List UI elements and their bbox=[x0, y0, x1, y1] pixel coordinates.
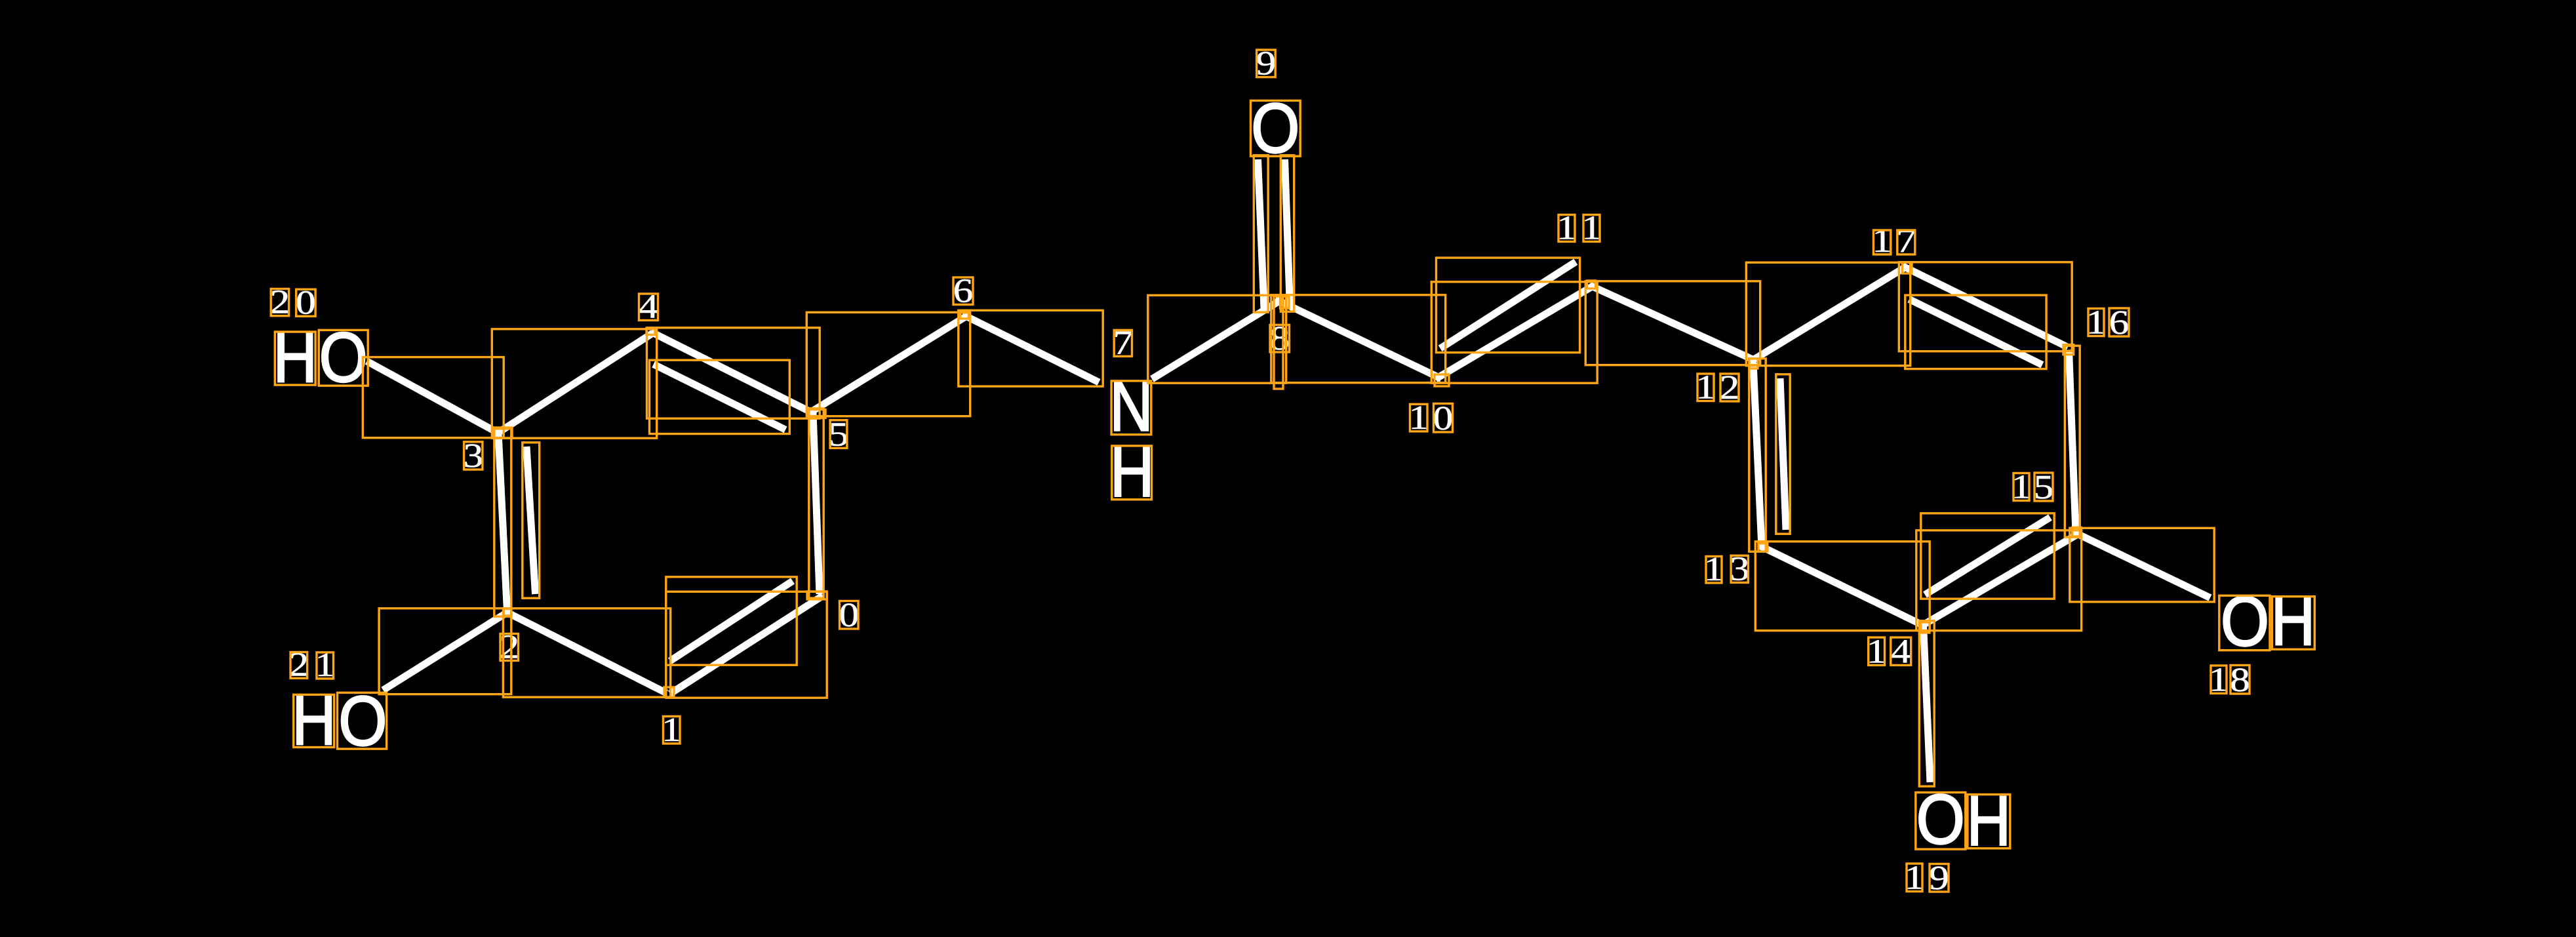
bond 6-N7 bbox=[962, 315, 1099, 383]
bond 3-O20 bbox=[367, 361, 500, 434]
box H7 bbox=[1112, 446, 1152, 500]
box bond 8-O9 a bbox=[1254, 155, 1268, 312]
box atom 1 bbox=[664, 687, 674, 697]
box label 12 char 1 bbox=[1697, 374, 1714, 401]
bond 2-3 inner bbox=[526, 447, 536, 594]
box label 2 char 2 bbox=[500, 634, 519, 661]
box bond 12-13 inner bbox=[1776, 374, 1790, 534]
box H21 bbox=[294, 694, 334, 747]
box atom 5 bbox=[809, 410, 825, 418]
box bond 10-11 bbox=[1431, 282, 1597, 383]
box label 1 char 1 bbox=[664, 717, 681, 744]
box label 3 char 3 bbox=[464, 442, 483, 469]
bond 8-O9 a bbox=[1258, 159, 1265, 308]
box atom 10 bbox=[1435, 374, 1449, 386]
box label 7 char 7 bbox=[1114, 330, 1132, 356]
bond 10-11 inner bbox=[1440, 262, 1576, 348]
box bond N7-8 bbox=[1148, 295, 1286, 383]
box atom 8 bbox=[1280, 296, 1290, 308]
box label 6 char 6 bbox=[953, 277, 973, 305]
box bond 16-17 bbox=[1899, 262, 2072, 351]
box label 14 char 1 bbox=[1869, 637, 1885, 665]
svg-text:O: O bbox=[2221, 582, 2269, 661]
box label 21 char 2 bbox=[290, 652, 307, 679]
box bond 8-O9 b bbox=[1280, 155, 1294, 311]
box label 10 char 1 bbox=[1410, 404, 1428, 431]
box bond 2-3 bbox=[494, 429, 511, 616]
bond N7-8 bbox=[1152, 300, 1282, 380]
box label 15 char 1 bbox=[2013, 473, 2029, 501]
bond 4-5 inner bbox=[654, 364, 785, 429]
box label 19 char 9 bbox=[1930, 864, 1949, 892]
bond 14-O19 bbox=[1924, 625, 1931, 782]
box bond 6-N7 bbox=[959, 310, 1103, 386]
bond 5-6 bbox=[811, 317, 966, 412]
box atom 11 bbox=[1587, 281, 1596, 289]
box label 15 char 5 bbox=[2034, 473, 2053, 501]
box bond 2-O21 bbox=[379, 608, 511, 694]
box H19 bbox=[1968, 795, 2010, 848]
box label 18 char 1 bbox=[2211, 666, 2227, 694]
box bond 4-5 inner bbox=[650, 360, 790, 433]
box atom 17 bbox=[1903, 262, 1912, 273]
box atom 14 bbox=[1921, 622, 1930, 633]
box atom 16 bbox=[2063, 345, 2074, 355]
box bond 10-11 inner bbox=[1437, 258, 1580, 352]
box bond 12-17 bbox=[1746, 262, 1910, 365]
box bond 3-O20 bbox=[363, 357, 504, 438]
bond 15-O18 bbox=[2074, 532, 2210, 598]
box N7 bbox=[1111, 381, 1151, 435]
box label 10 char 0 bbox=[1434, 404, 1453, 433]
box label 17 char 1 bbox=[1873, 230, 1890, 254]
box O9 bbox=[1251, 100, 1301, 156]
box atom 0 bbox=[807, 591, 827, 599]
box bond 5-0 bbox=[809, 409, 823, 598]
box bond 15-16 bbox=[2065, 346, 2080, 537]
box atom 12 bbox=[1749, 359, 1758, 369]
box H20 bbox=[275, 332, 315, 385]
bond 13-14 bbox=[1760, 546, 1926, 627]
box label 13 char 3 bbox=[1731, 555, 1748, 582]
box bond 12-13 bbox=[1749, 359, 1766, 551]
bond 14-15 inner bbox=[1925, 517, 2050, 595]
box label 17 char 7 bbox=[1897, 230, 1915, 254]
bond 4-5 bbox=[651, 332, 816, 414]
box atom 13 bbox=[1758, 544, 1768, 551]
bond 12-17 bbox=[1751, 267, 1907, 362]
box H18 bbox=[2272, 597, 2314, 650]
box label 13 char 1 bbox=[1706, 557, 1722, 584]
bond 16-17 inner bbox=[1909, 299, 2042, 365]
box bond 1-2 bbox=[503, 608, 670, 697]
box label 16 char 1 bbox=[2088, 309, 2104, 336]
bond 2-O21 bbox=[383, 612, 507, 690]
box label 20 char 0 bbox=[296, 289, 315, 316]
box atom 4 bbox=[646, 329, 655, 335]
bond 2-3 bbox=[498, 433, 507, 612]
bond 0-1 inner bbox=[670, 581, 793, 661]
box bond 11-12 bbox=[1585, 281, 1760, 365]
bond 8-O9 b bbox=[1285, 159, 1290, 308]
box atom 15 bbox=[2072, 527, 2082, 536]
bond 12-13 bbox=[1753, 363, 1762, 548]
box O20 bbox=[319, 330, 368, 386]
box label 12 char 2 bbox=[1720, 374, 1739, 401]
box bond 16-17 inner bbox=[1905, 295, 2046, 369]
box bond 8-10 bbox=[1271, 295, 1446, 383]
box bond 13-14 bbox=[1755, 542, 1930, 631]
box bond 5-6 bbox=[806, 312, 970, 416]
bond 11-12 bbox=[1590, 285, 1756, 361]
box O19 bbox=[1916, 793, 1966, 850]
box label 8 char 8 bbox=[1270, 325, 1290, 353]
box label 14 char 4 bbox=[1891, 637, 1911, 665]
box bond 0-1 bbox=[666, 591, 827, 698]
box label 5 char 5 bbox=[830, 420, 847, 449]
box label 21 char 1 bbox=[317, 652, 334, 679]
bond 1-2 bbox=[507, 612, 667, 693]
box label 0 char 0 bbox=[840, 601, 859, 629]
box label 11 char 1 bbox=[1583, 215, 1600, 242]
box O18 bbox=[2219, 595, 2270, 650]
box label 11 char 1 bbox=[1558, 215, 1575, 242]
box bond 14-15 inner bbox=[1921, 513, 2054, 599]
box bond 14-15 bbox=[1916, 530, 2082, 631]
box atom 6 bbox=[961, 313, 969, 319]
box O21 bbox=[338, 692, 387, 749]
bond 8-10 bbox=[1275, 299, 1442, 379]
box label 19 char 1 bbox=[1907, 864, 1922, 892]
box bond 2-3 inner bbox=[523, 443, 540, 598]
bond 5-0 bbox=[813, 412, 820, 594]
box bond 3-4 bbox=[492, 329, 656, 438]
bond 10-11 bbox=[1436, 286, 1594, 379]
bond 15-16 bbox=[2069, 350, 2076, 534]
bond 16-17 bbox=[1903, 266, 2069, 348]
bond 3-4 bbox=[496, 333, 653, 434]
bond 0-1 bbox=[670, 596, 823, 694]
box label 4 char 4 bbox=[639, 294, 658, 321]
box label 20 char 2 bbox=[271, 289, 288, 316]
box bond 0-1 inner bbox=[666, 577, 797, 665]
box bond 15-O18 bbox=[2070, 528, 2214, 602]
bond 14-15 bbox=[1920, 534, 2078, 627]
bond 12-13 inner bbox=[1780, 378, 1786, 530]
box label 18 char 8 bbox=[2230, 666, 2249, 694]
box label 16 char 6 bbox=[2109, 308, 2129, 336]
box atom 2 bbox=[504, 609, 512, 616]
box atom 3 bbox=[494, 428, 512, 438]
box atom 8 tall marker bbox=[1274, 296, 1283, 389]
box bond 4-5 bbox=[647, 328, 820, 418]
box bond 14-O19 bbox=[1919, 621, 1934, 786]
box label 9 char 9 bbox=[1257, 50, 1276, 77]
